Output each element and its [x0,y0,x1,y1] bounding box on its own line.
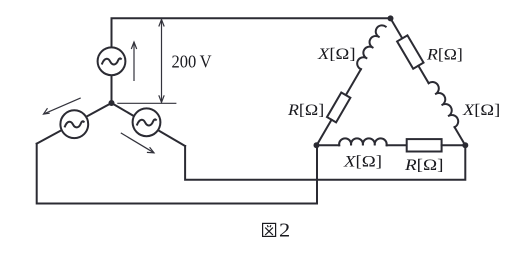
svg-text:R[Ω]: R[Ω] [426,47,463,64]
delta right branch: wire coil to vertex [455,127,466,145]
delta left branch: wire resistor to vertex [317,120,332,146]
wire top rail from source to delta apex [112,18,391,47]
dimension line: 200 V between top rail and neutral level [159,20,164,103]
delta left branch: inductor X [311,23,391,148]
delta bottom branch: inductor X [339,138,387,145]
delta right branch: wire resistor to coil [418,66,428,83]
svg-text:X[Ω]: X[Ω] [317,46,356,63]
delta right branch: wire apex to resistor [385,15,471,148]
delta bottom branch: wire resistor to right vertex [442,144,466,146]
wire left phase down and bottom rail to delta left vertex [37,144,317,204]
wire left phase diagonal [37,103,112,144]
svg-text:X[Ω]: X[Ω] [343,153,382,170]
delta left branch: resistor R [327,93,350,123]
arrow: phase voltage direction (up, beside top source) [131,42,136,81]
svg-text:200 V: 200 V [172,52,212,72]
junction dot: delta right vertex node [462,142,468,148]
delta right branch: resistor R [397,35,423,68]
delta bottom branch: resistor R [407,139,442,151]
svg-text:R[Ω]: R[Ω] [287,102,324,119]
ac source V1 (top phase) [98,47,126,75]
svg-text:2: 2 [279,220,290,242]
caption: figure number glyph (zu kanji drawn as strokes) [263,223,276,236]
delta left branch: wire coil to resistor [346,69,361,95]
wire right phase diagonal [112,103,186,146]
ac source V3 (right phase) [133,108,161,136]
delta bottom branch: wire left vertex to coil [317,138,466,151]
junction dot: delta apex node [388,15,394,21]
junction dot: delta left vertex node [314,142,320,148]
svg-text:R[Ω]: R[Ω] [404,157,444,174]
svg-text:X[Ω]: X[Ω] [462,102,500,119]
arrow: phase direction on right diagonal [121,133,154,153]
junction dot: neutral point of Y source [109,100,115,106]
wire: reference tick at neutral level [117,102,176,104]
arrow: phase direction on left diagonal [44,98,81,114]
ac source V2 (left phase) [60,110,88,138]
delta right branch: inductor X [429,80,461,128]
wire right phase down and mid rail to delta right vertex [185,145,465,180]
wire from top source to neutral junction [111,75,113,103]
delta bottom branch: wire coil to resistor [387,144,407,146]
